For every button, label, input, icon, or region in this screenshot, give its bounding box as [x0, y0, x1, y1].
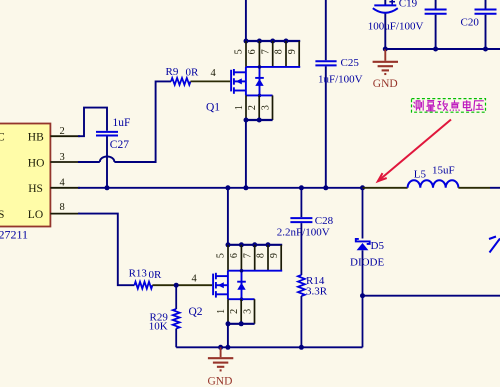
svg-text:HS: HS — [28, 183, 43, 195]
Q2 source rail — [228, 298, 255, 300]
junction C25 on HS bus — [323, 185, 328, 190]
svg-text:2: 2 — [247, 105, 258, 110]
resistor R14 3.3R — [300, 223, 302, 275]
wire HB to C27 — [78, 108, 107, 137]
wire VIN bus top right — [385, 48, 500, 50]
capacitor (unlabeled) — [435, 0, 437, 9]
svg-text:1: 1 — [234, 105, 245, 110]
svg-text:S: S — [0, 209, 4, 221]
Q2 source pin boxes 1-3 — [227, 299, 229, 324]
Q2 drain pin boxes 5-9 — [227, 245, 229, 271]
wire top vertical to Q1 drain — [245, 0, 247, 41]
svg-text:GND: GND — [208, 375, 233, 387]
svg-text:Q2: Q2 — [189, 306, 203, 318]
svg-text:R9: R9 — [166, 66, 179, 78]
svg-text:3: 3 — [260, 105, 271, 110]
capacitor C19 100uF/100V electrolytic — [384, 0, 386, 5]
svg-text:LO: LO — [28, 209, 43, 221]
wire R9 to Q1 gate, pin 4 — [191, 80, 231, 82]
svg-text:15uF: 15uF — [432, 164, 455, 176]
svg-text:1uF/100V: 1uF/100V — [318, 74, 363, 86]
Q2 drain rail — [228, 270, 282, 272]
svg-text:HO: HO — [28, 157, 45, 169]
svg-text:3.3R: 3.3R — [306, 286, 328, 298]
svg-text:C20: C20 — [461, 16, 480, 28]
Q2 drain pin bus bar — [228, 244, 282, 246]
Q1 body diode — [259, 67, 261, 96]
svg-text:C27: C27 — [110, 139, 129, 151]
wire LO to R13 — [78, 214, 134, 286]
svg-text:8: 8 — [274, 49, 285, 54]
svg-text:10K: 10K — [149, 321, 168, 333]
svg-text:1uF: 1uF — [113, 117, 131, 129]
svg-text:5: 5 — [234, 49, 245, 54]
svg-text:8: 8 — [256, 253, 267, 258]
IC pin 4 (HS) — [50, 187, 80, 189]
Q1 source rail — [246, 94, 273, 96]
Q1 drain pin boxes 5-9 — [245, 41, 247, 67]
wire C27 to HS bus — [106, 137, 108, 188]
wire Q2 source to ground bus — [227, 324, 229, 348]
svg-text:3: 3 — [60, 152, 65, 163]
capacitor C27 — [96, 131, 118, 133]
svg-text:6: 6 — [247, 49, 258, 54]
svg-text:5: 5 — [216, 253, 227, 258]
Q1 drain rail — [246, 66, 300, 68]
svg-text:9: 9 — [287, 49, 298, 54]
capacitor C25 1uF/100V — [325, 0, 327, 60]
resistor R9 0R — [171, 78, 191, 85]
svg-text:2: 2 — [60, 126, 65, 137]
IC pin 8 (LO) — [50, 213, 80, 215]
junction C28 on HS bus — [299, 185, 304, 190]
ground symbol bottom — [220, 347, 222, 357]
junction D5/L5 on HS bus — [360, 185, 365, 190]
wire Q1 source to HS bus — [245, 120, 247, 188]
svg-text:2: 2 — [229, 309, 240, 314]
wire output rail right — [363, 295, 500, 297]
svg-text:6: 6 — [229, 253, 240, 258]
svg-text:9: 9 — [269, 253, 280, 258]
inductor L5 15uF — [363, 187, 408, 189]
junction Q2 drain on HS bus — [225, 185, 230, 190]
junction R13/R29 — [174, 283, 179, 288]
Q1 drain pin bus bar — [246, 40, 300, 42]
IC U1 (27211 driver) body — [0, 124, 50, 227]
svg-text:3: 3 — [242, 309, 253, 314]
Q1 MOSFET symbol — [230, 70, 232, 92]
wire HO with hop over C27 wire — [78, 161, 100, 163]
wire HS bus to D5 — [362, 188, 364, 239]
svg-text:4: 4 — [211, 68, 217, 79]
capacitor C20 — [485, 0, 487, 9]
svg-text:C: C — [0, 132, 5, 144]
junction output rail — [360, 293, 365, 298]
svg-text:4: 4 — [60, 178, 66, 189]
svg-text:100uF/100V: 100uF/100V — [368, 21, 424, 33]
svg-text:R13: R13 — [129, 268, 148, 280]
annotation arrow — [378, 120, 451, 182]
junction C19/GND — [383, 47, 388, 52]
capacitor C28 2.2nF/100V — [300, 188, 302, 217]
svg-text:1: 1 — [216, 309, 227, 314]
resistor R29 10K — [175, 285, 177, 309]
svg-text:C25: C25 — [341, 57, 360, 69]
IC pin 3 (HO) — [50, 161, 80, 163]
wire R13 to Q2 gate, pin 4 — [152, 284, 212, 286]
svg-text:0R: 0R — [186, 67, 200, 79]
note box 测量改点电压 — [412, 99, 486, 113]
svg-text:7: 7 — [242, 253, 253, 258]
wire HS bus down to Q2 drain — [227, 188, 229, 245]
diode D5 (schottky) — [356, 239, 370, 244]
Q2 MOSFET symbol — [212, 274, 214, 296]
svg-text:C28: C28 — [315, 215, 334, 227]
svg-text:7: 7 — [260, 49, 271, 54]
wire HS bus (switch node) — [78, 187, 363, 189]
junction C27/HS — [105, 185, 110, 190]
Q2 source pin bus bar — [228, 323, 255, 325]
ground symbol top — [384, 49, 386, 61]
svg-text:DIODE: DIODE — [350, 256, 384, 268]
svg-text:4: 4 — [192, 273, 198, 284]
svg-text:C19: C19 — [399, 0, 418, 9]
svg-text:GND: GND — [373, 78, 398, 90]
Q1 source pin bus bar — [246, 119, 273, 121]
svg-text:L5: L5 — [414, 168, 427, 180]
Q1 source pin boxes 1-3 — [245, 95, 247, 120]
svg-text:2.2nF/100V: 2.2nF/100V — [277, 226, 330, 238]
Q2 body diode — [241, 271, 243, 300]
svg-text:27211: 27211 — [0, 228, 28, 242]
svg-text:Q1: Q1 — [206, 102, 220, 114]
svg-text:8: 8 — [60, 202, 65, 213]
svg-text:0R: 0R — [149, 269, 163, 281]
partial component at right edge — [490, 239, 500, 253]
resistor R13 0R — [134, 282, 152, 289]
svg-text:HB: HB — [28, 132, 44, 144]
svg-text:D5: D5 — [371, 240, 385, 252]
IC pin 2 (HB) — [50, 135, 80, 137]
wire ground bus bottom — [176, 346, 362, 348]
wire D5 to ground bus — [362, 250, 364, 347]
